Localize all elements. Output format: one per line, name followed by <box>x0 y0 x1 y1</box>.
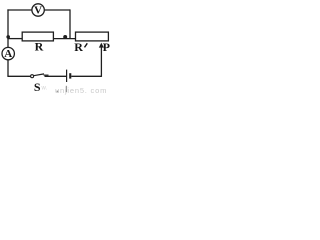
node junction dot right <box>63 35 67 39</box>
svg-text:unjien5. com: unjien5. com <box>55 86 107 95</box>
wire switch contact to battery <box>45 75 67 77</box>
wire bottom-left to switch pivot <box>7 75 30 77</box>
watermark darker dot <box>57 91 59 93</box>
wire battery to bottom-right corner <box>71 75 101 77</box>
wire top-right horizontal from voltmeter <box>44 9 70 11</box>
svg-text:R: R <box>74 40 83 54</box>
rheostat R' <box>74 32 108 54</box>
wire vertical drop to middle junction <box>69 9 71 38</box>
ammeter A <box>2 47 14 60</box>
battery cell short thick plate <box>69 73 71 78</box>
slider arrow P <box>99 40 110 54</box>
node junction dot left <box>6 35 10 39</box>
wire ammeter to bottom corner <box>7 59 9 76</box>
wire between R and rheostat R' <box>53 38 75 40</box>
battery cell long plate <box>66 70 68 82</box>
resistor R <box>22 32 53 54</box>
switch S <box>31 74 49 94</box>
voltmeter V <box>32 4 44 17</box>
svg-text:A: A <box>4 48 12 60</box>
wire left vertical from top corner to ammeter <box>7 9 9 48</box>
svg-text:w.: w. <box>41 86 48 92</box>
wire right vertical up to slider arrow <box>100 47 102 77</box>
svg-text:P: P <box>103 40 110 54</box>
wire middle node to resistor R <box>8 38 22 40</box>
wire top-left horizontal to voltmeter <box>7 9 32 11</box>
svg-text:R: R <box>35 40 44 54</box>
watermark darker stem glyph <box>65 86 67 92</box>
svg-text:S: S <box>34 80 41 94</box>
svg-text:V: V <box>34 5 42 17</box>
